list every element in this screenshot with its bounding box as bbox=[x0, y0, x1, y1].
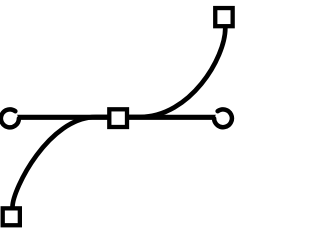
left end open circle bbox=[1, 109, 19, 127]
top-right handle square bbox=[215, 8, 232, 26]
horizontal baseline between end circles bbox=[8, 115, 226, 120]
center anchor square bbox=[109, 109, 127, 127]
bottom-left handle square bbox=[3, 208, 20, 225]
right end open circle bbox=[214, 109, 232, 127]
bezier S-curve from bottom-left handle through center to top-right handle bbox=[13, 28, 226, 207]
